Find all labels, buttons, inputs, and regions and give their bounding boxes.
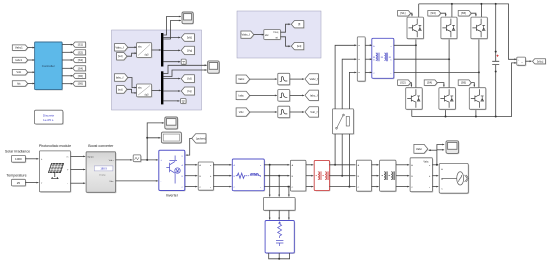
DC voltage measurement [517, 57, 527, 66]
wire 25 to PV [25, 182, 38, 184]
svg-text:[Vq]: [Vq] [187, 48, 192, 52]
wire demux to Vq [163, 49, 180, 51]
From tag Vdc [12, 70, 28, 76]
svg-text:[pulses]: [pulses] [196, 136, 206, 140]
From tag Iabc_f (dq0) [115, 74, 129, 82]
From tag Iabc (filter row) [236, 91, 250, 100]
IGBT T3 [441, 17, 458, 39]
wire load tap B [278, 176, 280, 197]
svg-text:[S4]: [S4] [427, 81, 432, 85]
wire demux to Iq [163, 90, 180, 92]
annotation area dq0 measurements [112, 30, 202, 110]
svg-text:[S5]: [S5] [461, 11, 466, 15]
RLC filter block (blue) [232, 159, 265, 192]
svg-text:Gp#px: Gp#px [87, 157, 94, 159]
scope grid Vabc [446, 141, 459, 154]
svg-text:[S3]: [S3] [431, 11, 436, 15]
wire grid Vabc to goto tag [429, 149, 437, 151]
wire breaker C up to VI meas [349, 72, 356, 109]
wire controller out 4 [62, 67, 73, 69]
grounding transformer block [380, 160, 397, 192]
constant 1000 [12, 155, 27, 163]
svg-text:Vdc: Vdc [239, 110, 244, 114]
svg-text:Vabc_f: Vabc_f [310, 77, 319, 81]
wire PLL wt to wt [281, 37, 291, 47]
wire transformer a to leg A [394, 44, 417, 46]
svg-text:dq0: dq0 [145, 94, 150, 97]
wire controller out 6 [62, 83, 73, 85]
Goto tag Vdc_f [305, 107, 319, 118]
wire PV + to boost [71, 169, 86, 171]
demux bar Vdq0 [161, 33, 163, 67]
wire controller out 1 [62, 44, 73, 46]
wire breaker C down to bus [348, 134, 350, 188]
svg-text:[Iq]: [Iq] [188, 89, 192, 93]
Goto tag Iq [181, 87, 195, 96]
wire T6 emitter stub [475, 109, 477, 116]
svg-text:g: g [182, 155, 183, 157]
wire Vd to scope Vdq [163, 16, 181, 35]
three-phase VI measurement B3 [290, 160, 306, 192]
wire measurement B3 to red transformer [306, 175, 313, 177]
svg-text:Vdc+: Vdc+ [109, 160, 115, 162]
From tag S6 [458, 80, 472, 86]
svg-text:[f]: [f] [298, 22, 301, 26]
svg-text:Photovoltaic module: Photovoltaic module [39, 144, 71, 148]
wire Vabc1 to controller [28, 47, 35, 49]
svg-text:[S4]: [S4] [78, 66, 83, 70]
From tag Iabc1 [12, 57, 28, 63]
wire connection to RC load C [288, 210, 290, 219]
svg-text:1000: 1000 [15, 157, 22, 161]
wire grounding transformer to source measurement B [396, 175, 409, 177]
IGBT T2 [406, 88, 423, 110]
wire RC load neutral tie [269, 253, 290, 260]
wire S3 to T3 gate [441, 13, 447, 16]
wire 1000 to PV [25, 158, 38, 160]
Goto tag S6 [73, 81, 87, 87]
wire filter to Vabc_f [290, 78, 304, 80]
wire transformer b to leg B [394, 58, 450, 60]
wire filter to Iabc_f [290, 95, 304, 97]
wire S5 to T5 gate [471, 13, 477, 16]
wire T5 collector stub [480, 4, 482, 17]
wire controller out 2 [62, 51, 73, 53]
Goto tag S2 [73, 50, 87, 56]
Goto tag Vd [181, 34, 195, 42]
svg-text:[S6]: [S6] [461, 81, 466, 85]
svg-text:Inverter: Inverter [166, 193, 179, 197]
wire pulses to inverter gate [186, 138, 192, 156]
wire boost Vdc- to inverter minus [116, 180, 158, 182]
wire S6 to T6 gate [471, 83, 475, 87]
wire load tap C [288, 187, 290, 197]
wire inverter C to measurement [185, 186, 198, 188]
wire grounding transformer to source measurement A [396, 164, 409, 166]
Goto tag S4 [73, 66, 87, 72]
From tag Vabc1 [12, 45, 28, 51]
grid-side transformer block (red) [314, 160, 330, 191]
wire measurement B3 to red transformer [306, 186, 313, 188]
terminator V0 [181, 59, 187, 65]
signal conversion block [133, 155, 142, 163]
scope Vdc link [165, 117, 179, 130]
wire abc2dq0 I to demux [152, 90, 161, 92]
svg-text:[Id]: [Id] [187, 77, 191, 81]
wire grounding transformer to source measurement C [396, 186, 409, 188]
wire demux to terminator I0 [163, 100, 179, 102]
svg-text:Vabc1: Vabc1 [15, 46, 23, 50]
svg-text:Iabc_f: Iabc_f [310, 93, 318, 97]
three-phase VI measurement B4 [356, 160, 372, 192]
wire Vdc to filter [250, 111, 277, 113]
svg-text:m: m [67, 157, 69, 159]
svg-text:Vabc_f: Vabc_f [115, 45, 124, 49]
label Boost converter [88, 144, 114, 148]
svg-text:c: c [260, 187, 261, 189]
arrowhead into Vabc goto tag [429, 149, 431, 151]
wire grid Vabc measurement up to scope [436, 144, 444, 166]
svg-text:Vdc_f: Vdc_f [310, 110, 317, 114]
Goto tag Vabc grid [414, 144, 429, 154]
wire Vdc sense to display [146, 137, 160, 160]
Goto tag Iabc_f [305, 90, 319, 101]
wire measurement B4 to grounding transformer [372, 186, 379, 188]
powergui Discrete block [34, 110, 63, 125]
svg-text:[Vdc]: [Vdc] [537, 59, 544, 63]
Goto tag Id [181, 75, 195, 83]
wire breaker A up to VI meas [335, 44, 356, 109]
label Photovoltaic module [39, 144, 71, 148]
display block Vdc [161, 132, 182, 144]
demux bar Idq0 [161, 71, 163, 104]
wire wt to abc2dq0 I [127, 89, 137, 94]
IGBT T1 [407, 17, 424, 39]
svg-text:1e-05 s.: 1e-05 s. [43, 118, 54, 122]
svg-text:Vdc-: Vdc- [109, 181, 114, 183]
svg-text:Vabc: Vabc [423, 160, 429, 163]
Goto tag Vabc_f [305, 74, 319, 85]
svg-text:[S3]: [S3] [78, 58, 83, 62]
wire inverter A to measurement [185, 164, 198, 166]
svg-text:Vabc: Vabc [416, 147, 423, 151]
wire breaker B up to VI meas [342, 58, 356, 109]
wire wt to abc2dq0 V [127, 52, 137, 56]
wire inverter B to measurement [185, 175, 198, 177]
svg-text:-: - [67, 182, 68, 185]
wire T2 emitter stub [411, 109, 413, 116]
wire conv to inverter plus [141, 159, 158, 161]
wire controller out 3 [62, 59, 73, 61]
filter block Iabc [278, 90, 291, 102]
abc to dq0 transform V [137, 43, 153, 59]
label Temperature [6, 174, 26, 178]
scope Vdq [182, 12, 194, 25]
wire T1 collector stub [418, 4, 420, 17]
IGBT T6 [469, 88, 486, 110]
wire S1 to T1 gate [411, 13, 413, 16]
From tag Vdc (filter row) [236, 108, 250, 117]
wire leg B midpoint vertical [448, 39, 450, 88]
controller subsystem block [35, 42, 63, 91]
IGBT T5 [471, 17, 488, 39]
wire Iabc_f to abc2dq0 I [128, 78, 137, 89]
wire Iq to scope Idq [163, 69, 206, 77]
wire RC load neutral center [278, 253, 280, 259]
From tag S1 [398, 11, 412, 17]
wire T4 emitter stub [445, 109, 447, 116]
wire VI meas to transformer [365, 72, 372, 74]
PLL block [264, 30, 282, 41]
IGBT T4 [439, 88, 456, 110]
wire demux to Vd [163, 37, 180, 39]
From tag S3 [428, 11, 442, 17]
scope Idq [208, 61, 220, 74]
wire demux to terminator V0 [163, 61, 180, 63]
wire measurement C to RLC filter [213, 186, 231, 188]
svg-text:25: 25 [17, 181, 21, 185]
svg-text:Vdc: Vdc [16, 70, 21, 74]
wire connection to RC load B [278, 210, 280, 219]
svg-text:Temperature: Temperature [6, 174, 26, 178]
wire measurement B to RLC filter [213, 175, 231, 177]
photovoltaic module block [39, 151, 71, 193]
wire measurement B4 to grounding transformer [372, 164, 379, 166]
svg-text:[S2]: [S2] [78, 50, 83, 54]
filter block Vdc [278, 106, 291, 118]
wire grid measurement a to utility grid [432, 164, 438, 166]
wire DC+ rail to voltage measurement [419, 3, 517, 60]
wire T3 collector stub [451, 4, 453, 17]
svg-text:[wt]: [wt] [118, 54, 123, 58]
svg-text:[S5]: [S5] [78, 74, 83, 78]
From tag S4 [424, 80, 438, 86]
wire filter a to measurement B3 [264, 164, 289, 166]
wire grid Vabc to scope input 2 [437, 149, 444, 151]
svg-text:Controller: Controller [42, 64, 55, 68]
wire measurement B3 to red transformer [306, 164, 313, 166]
svg-text:Iabc1: Iabc1 [15, 58, 22, 62]
Goto tag f [291, 21, 304, 29]
constant 25 [12, 179, 27, 187]
Goto tag S3 [73, 57, 87, 63]
From tag wt (I dq0) [117, 86, 128, 94]
three-phase load connection block [263, 198, 296, 212]
abc to dq0 transform I [137, 84, 153, 98]
wire VI meas to transformer [365, 58, 372, 60]
svg-text:Idc: Idc [17, 82, 21, 86]
wire voltage measurement to Vdc goto [526, 60, 532, 62]
wire PLL Freq to f [281, 23, 291, 32]
svg-text:Vabc_f: Vabc_f [242, 33, 251, 37]
Goto tag wt [291, 43, 304, 51]
svg-text:Discrete: Discrete [43, 113, 55, 117]
svg-text:Freq: Freq [274, 31, 279, 34]
From tag S2 [398, 80, 412, 86]
From tag Vabc (filter row) [236, 75, 250, 84]
wire Iabc1 to controller [28, 59, 35, 61]
wire Iabc to filter [250, 95, 277, 97]
wire measurement B4 to grounding transformer [372, 175, 379, 177]
wire Vq to scope Vdq [163, 20, 181, 39]
Goto tag Vdc (DC bus) [533, 59, 547, 65]
wire grid measurement b to utility grid [432, 175, 438, 177]
wire PV - to boost [71, 182, 86, 184]
wire PV m to boost [71, 156, 86, 158]
svg-text:Solar irradiance: Solar irradiance [5, 149, 30, 153]
label Inverter [166, 193, 179, 197]
wire transformer c to leg C [394, 71, 480, 73]
Goto tag Vq [181, 46, 195, 55]
wire load tap A [269, 165, 271, 197]
boost converter block [86, 152, 116, 193]
wire Id to scope Idq [163, 64, 206, 73]
three-phase transformer T1 (blue) [372, 38, 395, 79]
three-phase breaker [332, 109, 354, 135]
svg-text:Iabc: Iabc [239, 94, 245, 98]
wire boost Vdc+ to conv [116, 159, 133, 161]
svg-text:[S1]: [S1] [400, 11, 405, 15]
filter block Vabc [278, 73, 291, 85]
wire Vdc sense to scope [147, 122, 164, 138]
wire controller out 5 [62, 75, 73, 77]
wire Vabc to filter [250, 78, 277, 80]
three-phase VI measurement B2 [357, 37, 366, 82]
wire red transformer b to measurement B4 [329, 175, 355, 177]
svg-text:dq0: dq0 [145, 54, 150, 57]
DC bus capacitor [492, 4, 499, 117]
wire red transformer c to measurement B4 [329, 186, 355, 188]
svg-text:[S1]: [S1] [78, 43, 83, 47]
svg-text:wt: wt [276, 36, 279, 39]
wire S4 to T4 gate [437, 83, 445, 87]
wire connection to RC load A [269, 210, 271, 219]
wire demux to Id [163, 78, 180, 80]
terminator I0 [181, 99, 187, 105]
From tag S5 [458, 11, 472, 17]
From tag Idc [12, 81, 28, 87]
wire Vdc to controller [28, 71, 35, 73]
wire VI meas to transformer [365, 44, 372, 46]
wire Idc to controller [28, 83, 35, 85]
svg-text:188.9: 188.9 [100, 167, 107, 171]
svg-text:[S6]: [S6] [78, 82, 83, 86]
svg-text:Boost converter: Boost converter [88, 144, 114, 148]
wire breaker A down to bus [334, 134, 336, 166]
three-phase VI measurement B1 [198, 162, 214, 191]
svg-text:Display: Display [99, 174, 106, 176]
wire breaker B down to bus [341, 134, 343, 177]
Goto tag S1 [73, 42, 87, 48]
svg-text:Vabc: Vabc [238, 77, 245, 81]
wire red transformer a to measurement B4 [329, 164, 355, 166]
svg-text:Iabc_f: Iabc_f [116, 76, 124, 80]
svg-text:c: c [391, 73, 392, 75]
svg-text:[Vd]: [Vd] [187, 36, 192, 40]
RC load block (blue) [265, 221, 295, 254]
wire filter c to measurement B3 [264, 186, 290, 188]
From tag Vabc_f (PLL) [241, 31, 255, 39]
wire abc2dq0 V to demux [152, 49, 161, 51]
wire filter to Vdc_f [290, 111, 304, 113]
svg-text:[wt]: [wt] [297, 44, 302, 48]
wire filter b to measurement B3 [264, 175, 289, 177]
wire leg A midpoint vertical [415, 39, 417, 88]
From tag Vabc_f (dq0) [115, 44, 129, 52]
From tag pulses [192, 134, 207, 144]
Goto tag S5 [73, 73, 87, 79]
wire S2 to T2 gate [410, 83, 412, 87]
svg-text:[wt]: [wt] [118, 87, 123, 91]
From tag wt (V dq0) [117, 53, 128, 61]
annotation area PLL [237, 11, 321, 58]
label Solar irradiance [5, 149, 30, 153]
svg-text:[S2]: [S2] [400, 81, 405, 85]
wire grid measurement c to utility grid [432, 186, 438, 188]
wire DC- rail to voltage measurement [412, 62, 517, 118]
wire measurement A to RLC filter [213, 164, 231, 166]
wire Vabc_f to PLL [254, 34, 264, 36]
utility grid source block [439, 163, 469, 194]
wire leg C midpoint vertical [478, 39, 480, 88]
three-phase VI measurement grid [410, 158, 433, 193]
inverter block [159, 150, 186, 191]
wire Vabc_f to abc2dq0 V [128, 46, 137, 48]
